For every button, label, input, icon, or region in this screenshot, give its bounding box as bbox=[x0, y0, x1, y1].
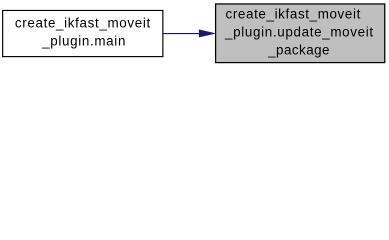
edge: call arrow (midnightblue) bbox=[163, 30, 215, 37]
svg-text:create_ikfast_moveit: create_ikfast_moveit bbox=[226, 6, 361, 21]
svg-text:create_ikfast_moveit: create_ikfast_moveit bbox=[15, 16, 151, 31]
doxygen call graph bbox=[0, 0, 389, 67]
svg-text:_package: _package bbox=[267, 43, 329, 58]
node: create_ikfast_moveit_plugin.update_moveit_package (current node, grey) bbox=[216, 4, 385, 63]
svg-text:_plugin.update_moveit: _plugin.update_moveit bbox=[224, 24, 373, 39]
svg-text:_plugin.main: _plugin.main bbox=[41, 34, 125, 49]
node: create_ikfast_moveit_plugin.main (caller box) bbox=[3, 10, 163, 56]
